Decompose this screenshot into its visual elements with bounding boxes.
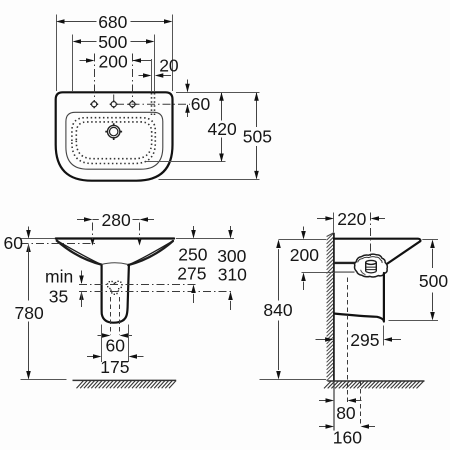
drain [105, 123, 122, 140]
svg-text:220: 220 [337, 209, 366, 229]
svg-text:250: 250 [178, 245, 207, 265]
dim 840 [263, 240, 292, 380]
trap outline (side view) [355, 254, 388, 277]
left extension of top edge [21, 238, 56, 240]
basin top edge (front view) [56, 237, 174, 239]
dim 200 extension lines (dash-dot up from outer holes) [95, 54, 133, 102]
svg-text:310: 310 [218, 265, 247, 285]
svg-text:min: min [45, 267, 73, 287]
dim 505 bottom extension [159, 179, 260, 181]
svg-text:500: 500 [98, 32, 127, 52]
wall hatching [327, 233, 334, 381]
dim 20 [139, 56, 179, 78]
wall face line [333, 233, 335, 381]
dim 200 [290, 227, 319, 291]
pedestal (front view) [102, 265, 129, 323]
svg-text:500: 500 [419, 271, 448, 291]
dim 300/310 up arrow [228, 292, 233, 311]
dim 20 lines [151, 59, 153, 91]
svg-text:200: 200 [99, 51, 128, 71]
dim 420 [208, 92, 237, 162]
wall face extension below floor [333, 381, 335, 431]
svg-text:160: 160 [333, 428, 362, 448]
faucet hole left [90, 100, 98, 108]
dim 500 extensions [389, 240, 439, 321]
basin left slope (double-line lens) [56, 240, 102, 265]
dim 200 top extension line [279, 239, 327, 241]
trap hidden dots (front view) [107, 281, 123, 295]
dim 295 [316, 330, 402, 350]
dim 250/300 arrows (down) [191, 226, 233, 239]
dim 500 extension lines [73, 35, 155, 92]
floor (front view) [73, 380, 177, 388]
svg-text:275: 275 [177, 263, 206, 283]
supply centre (dashed vertical) [360, 382, 362, 427]
min 35 arrows [79, 271, 84, 308]
waste height line B (dash-dot) [79, 291, 232, 293]
faucet hole middle [110, 100, 118, 108]
dim 220 extension line [333, 213, 335, 233]
drain pipe hidden lines in pedestal [111, 297, 120, 335]
drain pipe centre (dashed vertical) [347, 278, 349, 404]
dim 680 [56, 12, 173, 32]
floor (side view) [324, 381, 425, 388]
svg-text:420: 420 [208, 119, 237, 139]
svg-text:60: 60 [4, 233, 24, 253]
dim 175 extension lines [102, 325, 129, 363]
dim 200 [80, 51, 152, 71]
svg-text:780: 780 [15, 303, 44, 323]
dim 505 [243, 92, 272, 179]
fixing hole line left (dash-dot) [21, 243, 98, 245]
dim 280 extension stubs with small arrows [91, 223, 142, 246]
dim 500 [73, 32, 155, 52]
pipe to wall bottom line [335, 271, 355, 273]
svg-text:60: 60 [106, 336, 126, 356]
dim 60 left [4, 227, 31, 253]
dim 280 [77, 210, 154, 230]
svg-text:80: 80 [336, 403, 356, 423]
svg-text:680: 680 [98, 12, 127, 32]
faucet hole centre line (dash-dot) [116, 103, 190, 105]
dim 220 [317, 209, 385, 229]
trap inner wave line [358, 257, 382, 263]
right extension of top edge [176, 238, 234, 240]
basin underside arc [101, 263, 129, 265]
inner rim line [66, 112, 163, 169]
dim 420 bottom extension [146, 161, 226, 163]
dim 295 extension [383, 326, 385, 346]
svg-text:300: 300 [217, 246, 246, 266]
hidden bowl outline inner (dotted) [76, 122, 151, 159]
pedestal front edge (side view) [383, 273, 385, 320]
dim 840 bottom extension [260, 379, 327, 381]
svg-text:60: 60 [191, 94, 211, 114]
centre stub above middle hole [113, 95, 115, 102]
svg-text:175: 175 [100, 357, 129, 377]
svg-text:505: 505 [243, 127, 272, 147]
dim 60 (top view right) [185, 80, 210, 118]
svg-text:295: 295 [350, 330, 379, 350]
hidden bowl outline outer (dotted) [72, 118, 155, 164]
basin top edge (side view) [334, 239, 421, 265]
faucet hole right [128, 100, 136, 108]
dim 250/275 up arrow [191, 285, 196, 304]
dim 780 bottom extension [21, 379, 67, 381]
svg-text:840: 840 [263, 300, 292, 320]
waste height line A (dash-dot) [79, 284, 197, 286]
trap drain cylinder [361, 260, 377, 274]
dim 780 [15, 245, 44, 380]
basin right slope (double-line lens) [128, 241, 174, 266]
dim 80 [319, 398, 362, 423]
dim 220 tap centre (dash-dot) [370, 213, 372, 259]
pedestal bottom edge (side view) [335, 314, 384, 322]
svg-text:35: 35 [49, 287, 68, 307]
dim 60 bottom (drain) [98, 333, 133, 356]
svg-text:280: 280 [102, 210, 131, 230]
top extension line right (y=92.2) [176, 92, 260, 94]
svg-text:20: 20 [159, 56, 179, 76]
dim 680 extension lines [57, 15, 173, 92]
dim 175 [87, 354, 144, 377]
dim 200 bottom extension line [302, 272, 335, 274]
pipe to wall top line [335, 262, 358, 264]
svg-text:200: 200 [290, 245, 319, 265]
dim 500 [419, 240, 448, 321]
basin outline (top view) [56, 92, 173, 180]
dim 160 [319, 424, 375, 447]
